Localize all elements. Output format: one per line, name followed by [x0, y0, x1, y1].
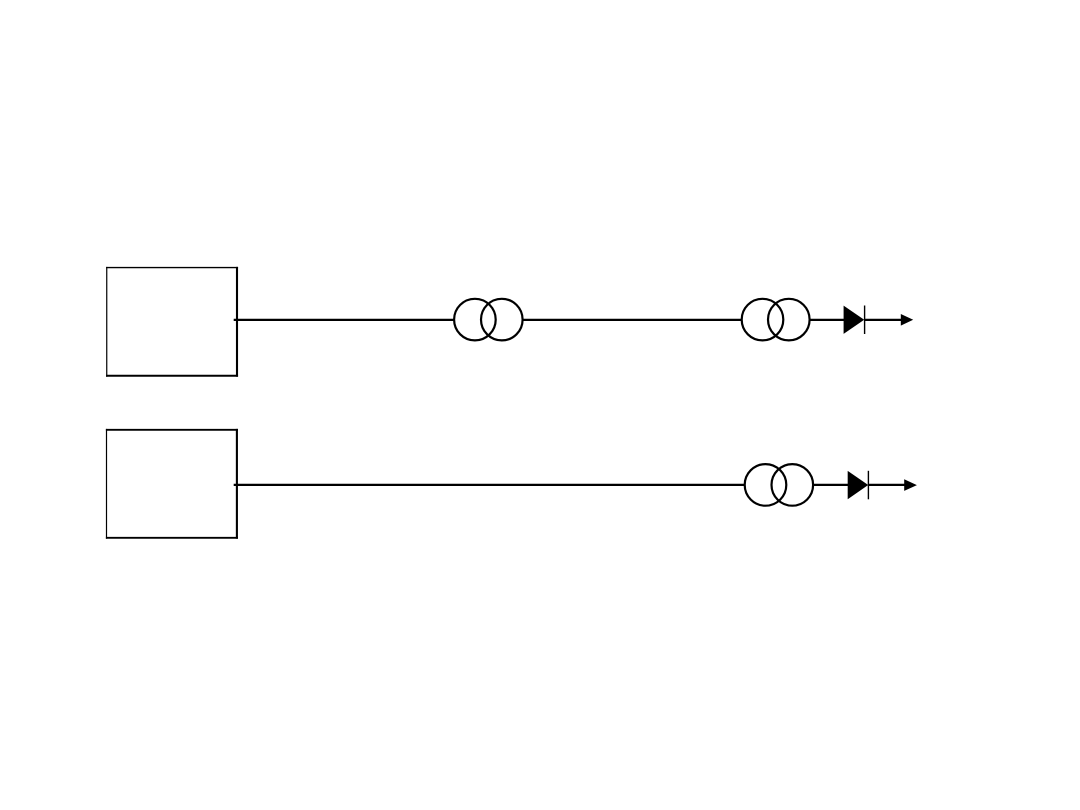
diode D1	[844, 306, 865, 335]
transformer T3	[745, 464, 813, 506]
wire T3 to D2	[813, 484, 848, 486]
source block B1	[106, 267, 238, 377]
output arrowhead row 1	[901, 314, 913, 326]
wire T1 to T2	[523, 319, 742, 321]
wire T2 to D1	[810, 319, 845, 321]
wire B1 to T1	[234, 319, 455, 321]
wire D1 to output arrow	[865, 319, 902, 321]
wire D2 to output arrow	[868, 484, 905, 486]
source block B2	[106, 429, 238, 539]
transformer T2	[742, 299, 810, 341]
transformer T1	[454, 299, 522, 341]
output arrowhead row 2	[904, 479, 917, 491]
wire B2 to T3	[234, 484, 745, 486]
diode D2	[848, 471, 869, 500]
